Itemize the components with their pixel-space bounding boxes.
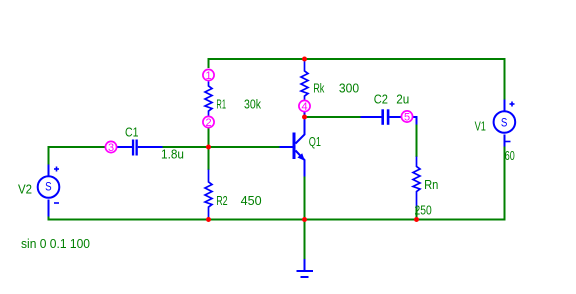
svg-text:C1: C1 <box>125 125 139 140</box>
svg-text:4: 4 <box>301 101 307 113</box>
svg-text:R2: R2 <box>216 193 228 208</box>
svg-text:R1: R1 <box>216 97 226 112</box>
svg-text:S: S <box>501 115 508 129</box>
svg-text:450: 450 <box>241 193 262 208</box>
svg-text:S: S <box>45 180 52 194</box>
svg-text:60: 60 <box>505 148 515 163</box>
svg-text:C2: C2 <box>374 92 388 107</box>
svg-text:sin 0 0.1 100: sin 0 0.1 100 <box>21 236 90 251</box>
svg-text:3: 3 <box>108 142 114 154</box>
svg-text:1.8u: 1.8u <box>161 147 184 162</box>
svg-text:V2: V2 <box>18 182 32 197</box>
svg-text:2u: 2u <box>396 92 409 107</box>
svg-text:1: 1 <box>205 70 211 82</box>
svg-text:250: 250 <box>415 203 432 218</box>
svg-text:5: 5 <box>404 112 410 124</box>
svg-text:V1: V1 <box>475 119 486 134</box>
svg-text:Rn: Rn <box>424 177 438 192</box>
svg-text:Rk: Rk <box>313 81 325 96</box>
svg-text:300: 300 <box>339 81 359 96</box>
svg-text:2: 2 <box>205 117 211 129</box>
svg-text:Q1: Q1 <box>309 134 321 149</box>
svg-text:30k: 30k <box>244 97 261 112</box>
